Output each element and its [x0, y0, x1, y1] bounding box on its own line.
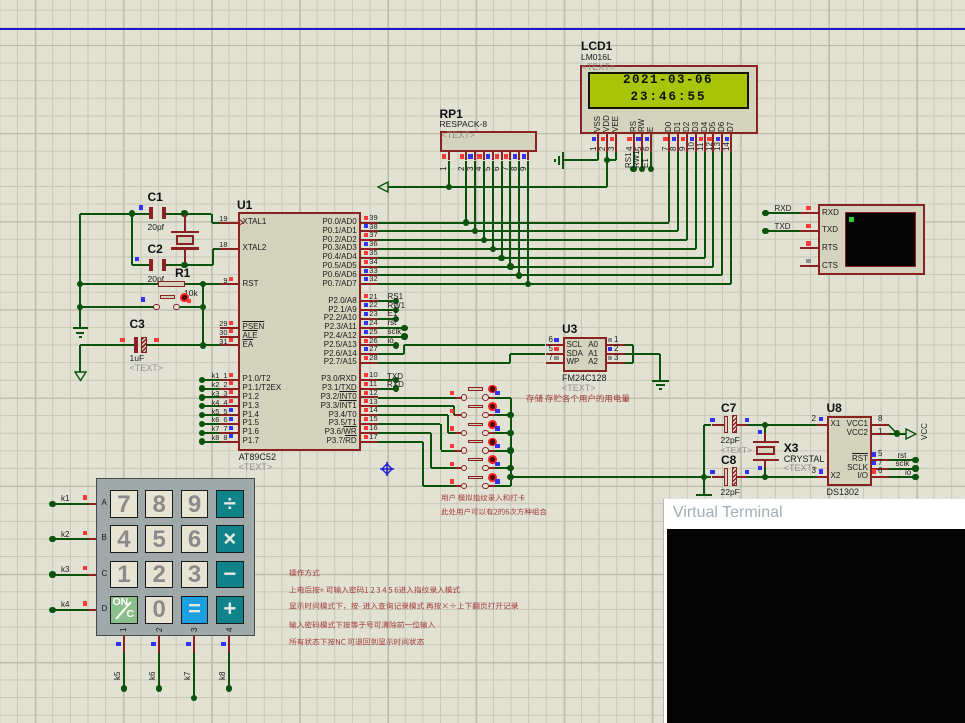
LCD pin 11 D4	[701, 121, 709, 131]
U8 pin 3 X2	[831, 472, 841, 481]
X3 reference label	[784, 442, 799, 455]
U1 pin 28	[361, 362, 379, 364]
U1 XTAL1 clock wedge	[239, 219, 245, 226]
node io label	[905, 469, 911, 478]
U1 pin 1 (P1.0/T2)	[220, 379, 238, 381]
LCD pin 7 D0	[665, 121, 673, 131]
node k8 stub	[199, 438, 205, 444]
button B3 knob	[488, 420, 497, 429]
terminal screen	[845, 212, 916, 267]
capacitor C1	[149, 207, 153, 219]
node k5 keypad	[123, 636, 125, 653]
reset button knob	[180, 293, 189, 302]
U3 pin 1 A0	[607, 344, 625, 346]
wire P0.0 to D0	[378, 222, 669, 224]
U3 placeholder text	[562, 384, 596, 394]
wire C1 row	[80, 213, 149, 215]
junction RP1 pin8	[516, 272, 522, 278]
U1 pin 24	[361, 327, 379, 329]
button B5 knob	[488, 455, 497, 464]
C2 value 20pf	[148, 275, 165, 284]
LCD screen	[588, 72, 749, 109]
wire LCD D4 down	[704, 152, 706, 258]
U1 pin 27	[361, 353, 379, 355]
wire P0.7 to D7	[378, 283, 731, 285]
crystal X1	[184, 214, 186, 232]
ground symbol LCD	[562, 152, 564, 170]
instruction line 4	[289, 620, 435, 630]
C1 value 20pf	[148, 223, 165, 232]
button B1 knob	[488, 385, 497, 394]
wire C2 to XTAL2	[166, 264, 213, 266]
annotation fingerprint 1	[441, 493, 525, 503]
node TXD	[378, 379, 396, 381]
U3 pin 6 SCL	[546, 344, 564, 346]
U1 pin 10	[361, 379, 379, 381]
terminal pin RTS	[800, 247, 818, 249]
LCD pin 5 RW	[638, 118, 646, 131]
RP1 pin 7	[509, 152, 511, 160]
keypad key 6	[181, 525, 209, 553]
C8 value 22pF	[721, 488, 740, 497]
C7 pin indicators	[710, 418, 714, 422]
wire VCC rail	[388, 186, 607, 188]
X3 pin indicators	[758, 430, 762, 434]
ground arrow	[74, 371, 87, 382]
wire LCD D5 down	[712, 152, 714, 267]
wire P2.6 to SCL	[378, 353, 404, 355]
wire button bus	[510, 398, 512, 486]
RP1 reference label	[440, 108, 463, 121]
node k2 keypad	[49, 536, 55, 542]
U1 pin 36	[361, 248, 379, 250]
wire P3.3 to button2	[378, 405, 454, 407]
C2 reference label	[148, 243, 163, 256]
LCD pin 10 D3	[692, 121, 700, 131]
U1 placeholder text	[239, 463, 273, 473]
junction button bus	[507, 430, 513, 436]
U3 pin 5 SDA	[546, 353, 564, 355]
LCD pin 1 VSS	[594, 115, 602, 131]
U3 pin 7 WP	[546, 362, 564, 364]
button B6 pin indicators	[450, 479, 454, 483]
node k7 keypad	[193, 636, 195, 653]
U1 pin 8 (P1.7)	[220, 441, 238, 443]
sheet border line	[0, 28, 965, 30]
capacitor C3	[134, 337, 138, 353]
capacitor C7	[724, 416, 728, 434]
wire C7 to X1	[737, 424, 747, 426]
U1 pin 7 (P1.6)	[220, 432, 238, 434]
RP1 placeholder text	[442, 131, 476, 141]
wire LCD D7 down	[730, 152, 732, 284]
node k1 keypad	[49, 501, 55, 507]
keypad column number 1	[120, 627, 128, 631]
push button B1	[455, 397, 461, 399]
junction C2 branch	[129, 210, 135, 216]
U1 pin 30 (<span style="text-decoration:overline">ALE</span>)	[220, 336, 238, 338]
U1 pin 9 (RST)	[220, 283, 238, 285]
wire P0.5 to D5	[378, 266, 713, 268]
node RW1	[378, 309, 396, 311]
LCD text line1	[623, 74, 713, 88]
wire RP1 pin4 down	[483, 161, 485, 241]
keypad key 1	[110, 561, 138, 589]
power arrow VCC right	[905, 428, 917, 440]
C3 reference label	[130, 318, 145, 331]
C7 placeholder text	[721, 446, 753, 455]
U8 pin 6	[872, 476, 889, 478]
LCD1 reference label	[581, 40, 612, 53]
node k5 stub	[199, 412, 205, 418]
wire C2 branch vertical	[131, 214, 133, 266]
LCD pin 2 VDD	[603, 115, 611, 132]
RP1 pin 8	[518, 152, 520, 160]
junction RP1 pin2	[463, 219, 469, 225]
wire C2 row	[132, 264, 149, 266]
U1 pin 35	[361, 257, 379, 259]
wire VDD down to VCC rail	[606, 152, 608, 187]
keypad column number 4	[226, 627, 234, 631]
C7 value 22pF	[721, 436, 740, 445]
keypad body	[96, 478, 255, 637]
RP1 pin 6	[501, 152, 503, 160]
node rst	[378, 327, 404, 329]
keypad key op	[216, 561, 244, 589]
U1 pin 19 (XTAL1)	[220, 222, 238, 224]
wire P3.5 to button4	[378, 423, 440, 425]
reset button	[160, 295, 175, 299]
node RS1 at LCD	[633, 152, 635, 169]
keypad row label C	[102, 570, 108, 579]
wire RP1 pin9 down	[527, 161, 529, 285]
C2 pin indicator	[135, 257, 139, 261]
U8 value label DS1302	[827, 488, 860, 498]
wire P3.6 to button5	[378, 432, 431, 434]
lcd LCD1 LM016L body	[580, 65, 757, 134]
node k7 stub	[199, 430, 205, 436]
LCD1 value label LM016L	[581, 53, 612, 62]
wire P0.4 to D4	[378, 257, 704, 259]
junction RP1 pin4	[481, 237, 487, 243]
wire P3.2 to button1	[378, 397, 455, 399]
LCD pin 13 D6	[718, 121, 726, 131]
LCD pin 14 D7	[727, 121, 735, 131]
wire C1 to XTAL1	[166, 213, 212, 215]
U8 pin 5	[872, 459, 889, 461]
U3 pin 2 A1	[607, 353, 625, 355]
annotation fingerprint 2	[441, 507, 547, 517]
U1 pin 14	[361, 414, 379, 416]
wire RP1 pin5 down	[492, 161, 494, 250]
U1 pin 32	[361, 283, 379, 285]
junction button bus	[507, 465, 513, 471]
wire RP1 pin6 down	[501, 161, 503, 258]
U1 pin 26	[361, 344, 379, 346]
wire button row left	[80, 306, 154, 308]
wire LCD D3 down	[695, 152, 697, 249]
node RXD	[378, 388, 396, 390]
keypad key 3	[181, 561, 209, 589]
push button B3	[455, 432, 461, 434]
U1 pin 18 (XTAL2)	[220, 248, 238, 250]
wire VEE to VDD	[615, 152, 617, 160]
instruction line 3	[289, 601, 518, 611]
keypad row label B	[102, 534, 107, 543]
keypad key 5	[145, 525, 173, 553]
resistor pack RP1 body	[440, 131, 536, 152]
node k4 stub	[199, 403, 205, 409]
wire VSS to ground	[597, 152, 599, 160]
U1 value label AT89C52	[239, 453, 276, 463]
wire LCD D0 down	[668, 152, 670, 223]
crystal X3	[764, 425, 766, 434]
node E1	[378, 318, 396, 320]
virtual terminal window	[663, 499, 965, 723]
LCD pin 3 VEE	[612, 115, 620, 131]
wire P0.2 to D2	[378, 239, 687, 241]
ground symbol U3	[652, 380, 670, 382]
C8 pin indicators	[710, 470, 714, 474]
U8 pin 7	[872, 468, 889, 470]
RP1 pin 9	[527, 152, 529, 160]
junction C8 node	[701, 474, 707, 480]
RP1 pin1 wire to VCC rail	[448, 161, 450, 188]
wire bus to C8 node	[511, 476, 704, 478]
C3 value 1uF	[130, 354, 145, 363]
U8 pin 8 VCC1	[872, 424, 889, 426]
junction RP1 pin3	[472, 228, 478, 234]
RP1 value label RESPACK-8	[440, 120, 488, 129]
U1 pin 13	[361, 405, 379, 407]
U1 pin 12	[361, 396, 379, 398]
terminal pin TXD	[800, 230, 818, 232]
junction button bus	[507, 447, 513, 453]
wire RP1 pin8 down	[518, 161, 520, 276]
instruction line 2	[289, 585, 460, 595]
C1 reference label	[148, 191, 163, 204]
LCD pin 6 E	[647, 126, 655, 131]
keypad key 9	[181, 490, 209, 518]
junction VCC U8	[894, 430, 900, 436]
wire A0-A2 bracket	[625, 344, 633, 346]
U8 pin 1 VCC2	[872, 433, 889, 435]
push button B2	[455, 414, 461, 416]
node sclk label	[896, 460, 910, 469]
wire P3.7 to button6	[378, 441, 422, 443]
U1 pin 37	[361, 239, 379, 241]
wire C3 to EA	[147, 344, 203, 346]
U1 pin 22	[361, 309, 379, 311]
R1 value 10k	[184, 289, 198, 298]
wire LCD D1 down	[677, 152, 679, 232]
LCD pin 12 D5	[709, 121, 717, 131]
junction crystal top	[181, 210, 187, 216]
keypad row label A	[102, 499, 107, 508]
RP1 pin 3	[474, 152, 476, 160]
node RS1	[378, 300, 396, 302]
mcu U1 AT89C52 body	[238, 212, 361, 451]
button B5 pin indicators	[450, 462, 454, 466]
U1 pin 15	[361, 423, 379, 425]
LCD pin 4 RS	[630, 120, 638, 131]
keypad key equals	[181, 596, 209, 624]
node k6 stub	[199, 421, 205, 427]
button B4 knob	[488, 438, 497, 447]
terminal pin RXD	[800, 212, 818, 214]
C3 placeholder text	[130, 364, 164, 374]
U3 pin 3 A2	[607, 362, 625, 364]
node k4 keypad	[49, 607, 55, 613]
node k2 stub	[199, 385, 205, 391]
eeprom U3 FM24C128 body	[563, 337, 607, 372]
junction C3 EA	[200, 342, 206, 348]
LCD pin 8 D1	[674, 121, 682, 131]
U1 pin 5 (P1.4)	[220, 414, 238, 416]
RP1 pin 2	[465, 152, 467, 160]
C3 pin indicators	[120, 338, 124, 342]
X3 value CRYSTAL	[784, 455, 825, 465]
keypad key 4	[110, 525, 138, 553]
junction button bus	[507, 412, 513, 418]
keypad key 7	[110, 490, 138, 518]
keypad key op	[216, 490, 244, 518]
junction VCC RP1	[446, 184, 452, 190]
U1 pin 23	[361, 318, 379, 320]
LCD pin 9 D2	[683, 121, 691, 131]
wire A1 to ground	[625, 353, 661, 355]
U1 pin 25	[361, 336, 379, 338]
ground symbol left	[73, 327, 88, 329]
RP1 pin 1	[448, 152, 450, 160]
annotation storage	[526, 393, 630, 404]
button B4 pin indicators	[450, 444, 454, 448]
rtc U8 DS1302 body	[827, 416, 872, 486]
origin marker	[380, 462, 394, 476]
node k6 keypad	[158, 636, 160, 653]
wire P2.7 to SDA	[378, 362, 510, 364]
wire C7 left	[704, 424, 712, 426]
instruction line 5	[289, 637, 424, 647]
junction crystal bottom	[181, 262, 187, 268]
keypad key 0	[145, 596, 173, 624]
U1 pin 16	[361, 432, 379, 434]
C1 pin indicator	[139, 205, 143, 209]
node k8 keypad	[228, 636, 230, 653]
U1 pin 33	[361, 274, 379, 276]
button B6 knob	[488, 473, 497, 482]
wire C8 left	[704, 476, 712, 478]
keypad column number 3	[191, 627, 199, 631]
U1 pin 11	[361, 388, 379, 390]
node E1 at LCD	[650, 152, 652, 169]
junction RP1 pin6	[498, 255, 504, 261]
U1 reference label	[237, 199, 252, 212]
keypad column number 2	[156, 627, 164, 631]
wire LCD D6 down	[721, 152, 723, 276]
node k1 stub	[199, 377, 205, 383]
keypad key op	[216, 596, 244, 624]
junction RP1 pin9	[525, 281, 531, 287]
junction X3 bottom	[762, 474, 768, 480]
wire LCD D2 down	[686, 152, 688, 240]
U1 pin 39	[361, 222, 379, 224]
junction button right	[200, 304, 206, 310]
reset button pin indicator	[141, 297, 145, 301]
wire R1 to RST	[185, 283, 203, 285]
keypad key ON/C	[110, 596, 138, 624]
instruction line 1	[289, 568, 320, 578]
junction button row	[77, 304, 83, 310]
junction VDD VEE	[604, 157, 610, 163]
node sclk	[378, 336, 404, 338]
junction bus exit	[507, 474, 513, 480]
wire VCC2 to arrow	[889, 433, 907, 435]
power arrow VCC	[377, 181, 389, 193]
wire RP1 pin2 down	[465, 161, 467, 223]
wire P0.3 to D3	[378, 248, 696, 250]
C7 reference label	[721, 402, 736, 415]
button B3 pin indicators	[450, 426, 454, 430]
keypad row label D	[102, 605, 108, 614]
wire P0.1 to D1	[378, 230, 678, 232]
wire R1 row left	[80, 283, 158, 285]
wire C8 to X2	[737, 476, 747, 478]
junction RST	[200, 281, 206, 287]
junction X3 top	[762, 422, 768, 428]
wire button row right	[180, 306, 203, 308]
U3 value label FM24C128	[562, 374, 607, 384]
R1 reference label	[175, 267, 190, 280]
RP1 pin 5	[492, 152, 494, 160]
U8 pin 2 X1	[831, 420, 841, 429]
gnd rail left	[79, 214, 81, 329]
ground symbol C8	[696, 494, 712, 496]
node io	[378, 344, 396, 346]
node k3 keypad	[49, 571, 55, 577]
node k3 stub	[199, 394, 205, 400]
U1 pin 34	[361, 266, 379, 268]
resistor R1	[158, 281, 185, 287]
junction RP1 pin7	[507, 263, 513, 269]
terminal pin CTS	[800, 265, 818, 267]
push button B6	[455, 485, 461, 487]
wire VCC1 diag	[888, 424, 899, 435]
capacitor C8	[724, 468, 728, 486]
U1 pin 38	[361, 230, 379, 232]
U1 pin 21	[361, 300, 379, 302]
C8 reference label	[721, 454, 736, 467]
keypad key 2	[145, 561, 173, 589]
U1 pin 6 (P1.5)	[220, 423, 238, 425]
LCD1 placeholder text	[582, 63, 616, 73]
wire C3 row left	[80, 344, 134, 346]
VCC label	[921, 423, 929, 440]
U8 reference label	[827, 402, 842, 415]
U1 pin 3 (P1.2)	[220, 396, 238, 398]
node rst label	[898, 452, 907, 461]
U1 pin 29 (<span style="text-decoration:overline">PSEN</span>)	[220, 327, 238, 329]
U1 pin 4 (P1.3)	[220, 405, 238, 407]
button B1 pin indicators	[450, 391, 454, 395]
push button B5	[455, 467, 461, 469]
X3 placeholder text	[784, 464, 818, 474]
U1 pin 31 (<span style="text-decoration:overline">EA</span>)	[220, 344, 238, 346]
terminal cursor	[849, 217, 854, 222]
U1 pin 2 (P1.1/T2EX)	[220, 388, 238, 390]
RP1 pin 4	[483, 152, 485, 160]
junction RP1 pin5	[490, 246, 496, 252]
